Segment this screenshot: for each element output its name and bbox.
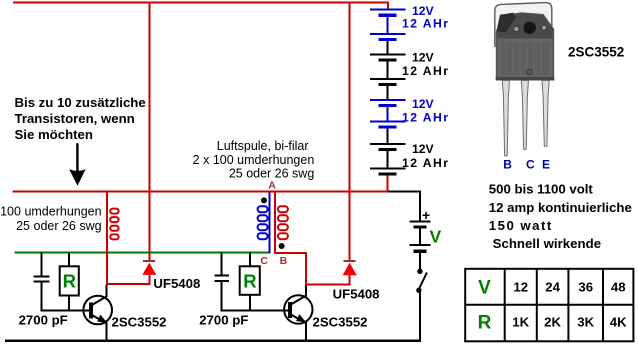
svg-text:R: R — [63, 270, 76, 291]
battery stack B4 black — [370, 129, 405, 176]
text L1 label — [0, 205, 102, 234]
svg-text:100 umderhungen: 100 umderhungen — [0, 205, 102, 219]
inductor L1 loops — [110, 209, 118, 240]
wire battery V to switch — [419, 253, 421, 269]
text diode specs — [489, 182, 632, 252]
transistor photo 2SC3552 — [495, 3, 554, 156]
svg-text:E: E — [542, 158, 550, 172]
svg-text:R: R — [243, 270, 256, 291]
photo rivet dots — [514, 26, 520, 32]
svg-text:UF5408: UF5408 — [333, 287, 380, 302]
wire red collector rail — [13, 191, 389, 193]
text pin labels — [503, 158, 550, 172]
arrow pointing to rail — [69, 143, 85, 186]
photo plastic face — [498, 39, 552, 78]
wire stage1 base wire — [41, 309, 90, 311]
svg-text:12V: 12V — [412, 142, 435, 156]
svg-text:R: R — [478, 312, 492, 333]
wire top positive bus — [13, 1, 389, 3]
wire switch to bottom rail — [419, 293, 421, 342]
wire green base bus rail — [14, 251, 270, 253]
phasing dot top — [261, 197, 267, 203]
svg-text:150 watt: 150 watt — [489, 218, 552, 233]
photo body top shading — [498, 13, 553, 38]
svg-text:12V: 12V — [412, 51, 435, 65]
wire battery top corner — [387, 1, 389, 9]
photo face striations — [506, 42, 541, 74]
photo dark wedge top-left — [497, 13, 517, 33]
wire Q2 emitter — [305, 322, 307, 341]
svg-text:B: B — [503, 158, 512, 172]
battery stack B1 cell1 blue — [370, 9, 405, 42]
text air coil note — [193, 139, 315, 180]
inductor L1 line — [106, 193, 108, 286]
switch S1 — [416, 269, 427, 293]
svg-text:2SC3552: 2SC3552 — [568, 45, 624, 60]
wire stage2 diode branch vertical x=349.6 — [349, 2, 351, 261]
svg-text:Transistoren, wenn: Transistoren, wenn — [15, 111, 135, 126]
svg-text:2700 pF: 2700 pF — [19, 313, 68, 328]
svg-text:12V: 12V — [412, 97, 435, 111]
svg-text:1K: 1K — [512, 315, 529, 330]
phasing dot bottom — [279, 243, 285, 249]
svg-text:A: A — [268, 180, 276, 192]
capacitor C2 — [215, 253, 229, 311]
wire extension vertical line x=149 — [148, 2, 150, 261]
resistor R1 — [60, 253, 79, 311]
diode D1 UF5408 — [142, 260, 156, 284]
svg-text:4K: 4K — [610, 315, 627, 330]
photo leg E — [542, 81, 549, 147]
svg-text:V: V — [478, 277, 491, 298]
svg-text:48: 48 — [611, 280, 626, 295]
photo tab outline — [495, 3, 552, 46]
wire stage2 base wire — [221, 309, 288, 311]
svg-text:Sie möchten: Sie möchten — [15, 127, 93, 142]
wire Q1 emitter — [105, 323, 107, 342]
photo bottom edge band — [496, 77, 554, 81]
svg-text:25 oder 26 swg: 25 oder 26 swg — [16, 219, 102, 233]
svg-text:Schnell wirkende: Schnell wirkende — [493, 236, 601, 251]
wire Q1 collector — [105, 285, 107, 297]
wire stage1 collector corner — [106, 283, 150, 285]
transistor Q2 — [284, 295, 312, 323]
text battery labels — [402, 4, 448, 170]
battery stack B3 blue — [370, 99, 405, 129]
svg-text:2 x 100 umderhungen: 2 x 100 umderhungen — [193, 153, 315, 167]
battery stack B2 black — [370, 41, 405, 99]
photo leg B — [502, 81, 509, 156]
table V R values — [465, 269, 633, 342]
svg-text:25 oder 26 swg: 25 oder 26 swg — [229, 167, 315, 181]
transistor Q1 — [83, 296, 112, 325]
svg-text:UF5408: UF5408 — [153, 276, 200, 291]
svg-text:2K: 2K — [544, 315, 561, 330]
svg-text:C: C — [260, 255, 268, 267]
svg-text:Luftspule, bi-filar: Luftspule, bi-filar — [217, 139, 309, 153]
wire to V battery — [388, 191, 421, 193]
wire battery bottom red — [387, 176, 389, 191]
transformer T1 blue winding — [269, 193, 271, 254]
transformer T1 red winding — [274, 193, 276, 253]
photo bottom dimple — [527, 69, 533, 75]
svg-text:+: + — [422, 207, 430, 223]
wire B to stage2 — [274, 252, 307, 254]
text note additional transistors — [15, 95, 146, 142]
svg-text:12 amp kontinuierliche: 12 amp kontinuierliche — [489, 200, 632, 215]
capacitor C1 — [33, 253, 49, 311]
svg-text:3K: 3K — [577, 315, 594, 330]
photo dark body — [496, 12, 554, 80]
svg-text:Bis zu 10 zusätzliche: Bis zu 10 zusätzliche — [15, 95, 146, 110]
wire Q2 collector — [305, 286, 307, 297]
photo mounting hole — [524, 22, 536, 34]
svg-text:24: 24 — [545, 280, 560, 295]
battery V cells — [409, 221, 430, 253]
svg-text:12: 12 — [513, 280, 528, 295]
wire bottom ground rail — [5, 340, 421, 342]
svg-text:V: V — [430, 227, 442, 247]
resistor R2 — [240, 253, 260, 311]
svg-text:2SC3552: 2SC3552 — [112, 314, 167, 329]
svg-text:2SC3552: 2SC3552 — [313, 314, 368, 329]
photo leg C — [521, 81, 528, 150]
svg-text:36: 36 — [578, 280, 593, 295]
svg-text:2700 pF: 2700 pF — [199, 313, 248, 328]
svg-text:500 bis 1100 volt: 500 bis 1100 volt — [489, 182, 594, 197]
svg-text:B: B — [280, 255, 288, 267]
svg-text:C: C — [526, 158, 535, 172]
diode D2 UF5408 — [343, 260, 357, 285]
